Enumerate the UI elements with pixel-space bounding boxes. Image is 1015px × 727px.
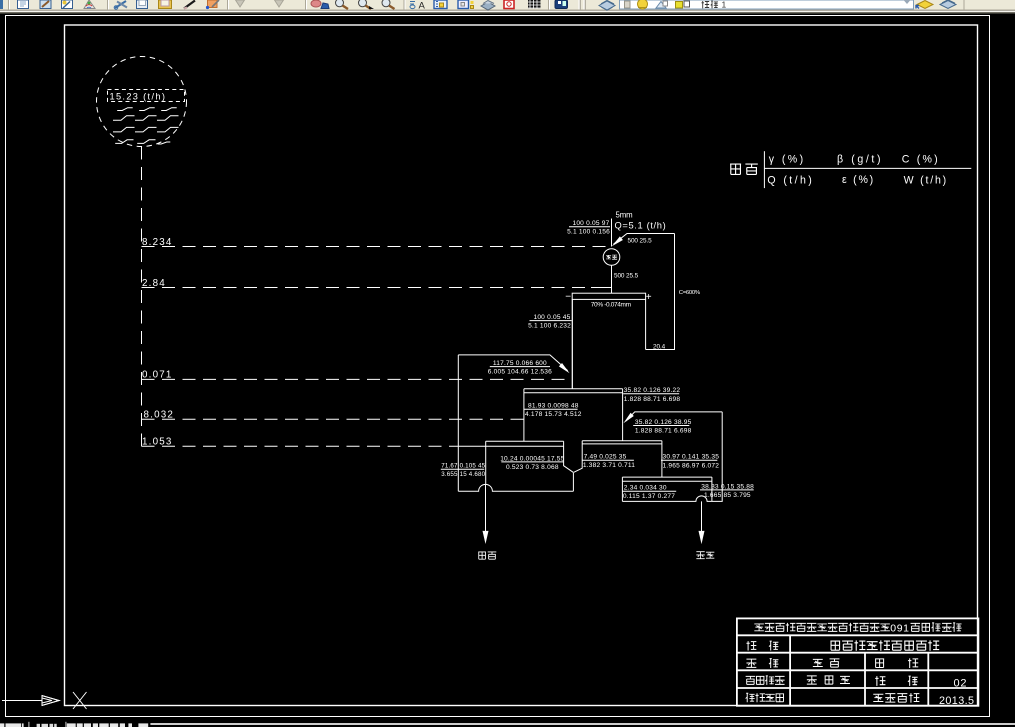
water line 0.071 (142, 378, 573, 380)
box B top (doubled) (458, 441, 563, 446)
svg-text:8.234: 8.234 (142, 237, 173, 248)
pump to classifier line (611, 265, 613, 293)
svg-text:1: 1 (722, 0, 727, 10)
svg-text:4.178 15.73 4.512: 4.178 15.73 4.512 (525, 411, 582, 418)
flotation box A top (524, 389, 623, 393)
svg-text:2.34 0.034 30: 2.34 0.034 30 (624, 485, 667, 492)
svg-text:2013.5: 2013.5 (939, 695, 974, 707)
box B left edge (485, 441, 487, 484)
title block row lines (737, 635, 979, 688)
box D bottom with tailings arc (622, 496, 712, 502)
fraction box C (582, 459, 634, 461)
svg-text:1.382 3.71 0.711: 1.382 3.71 0.711 (583, 462, 635, 469)
tailings arrow (701, 501, 703, 531)
svg-text:−: − (565, 292, 571, 303)
fraction tailings (700, 489, 754, 491)
water line 2.84 (142, 287, 592, 289)
bottom status fragments (0, 723, 4, 727)
title block outer (737, 618, 979, 705)
UCS X label (73, 692, 87, 709)
toolbar background (0, 0, 1015, 10)
title row3 (746, 659, 756, 667)
svg-text:30.97 0.141 35.35: 30.97 0.141 35.35 (663, 454, 720, 461)
svg-text:+: + (646, 292, 652, 303)
pump circle (603, 249, 620, 266)
legend fraction bar (764, 167, 971, 169)
svg-text:ε (%): ε (%) (842, 174, 875, 186)
svg-text:C=600%: C=600% (679, 290, 701, 296)
svg-text:02: 02 (954, 677, 968, 689)
svg-text:0.115 1.37 0.277: 0.115 1.37 0.277 (623, 493, 675, 500)
svg-text:15.23 (t/h): 15.23 (t/h) (110, 91, 167, 101)
svg-text:500 25.5: 500 25.5 (614, 272, 639, 279)
funnel riser (572, 472, 574, 491)
svg-text:2.84: 2.84 (142, 278, 166, 289)
water line 1.053 (142, 445, 459, 447)
svg-text:091: 091 (890, 622, 909, 634)
svg-text:1.965 86.97 6.072: 1.965 86.97 6.072 (663, 462, 720, 469)
svg-text:Q=5.1 (t/h): Q=5.1 (t/h) (615, 220, 667, 230)
ore feed circle (dashed) (97, 57, 187, 147)
fraction 71.67 left (441, 468, 485, 470)
box D top (doubled) (622, 477, 712, 481)
box C right edge (661, 441, 663, 477)
box A left edge (523, 389, 525, 441)
fraction box A (524, 408, 578, 410)
ore pile hatch marks (117, 108, 133, 111)
svg-text:10.24 0.00045 17.55: 10.24 0.00045 17.55 (500, 455, 564, 462)
svg-text:117.75 0.066 600: 117.75 0.066 600 (493, 360, 547, 367)
svg-text:A: A (419, 1, 426, 12)
box C top (doubled) (582, 441, 662, 444)
legend divider vertical (763, 151, 765, 188)
svg-text:Q (t/h): Q (t/h) (767, 174, 814, 186)
raw feed vertical line (611, 219, 613, 247)
title row2 (746, 641, 756, 650)
label wei-kuang (tailings) (696, 552, 704, 559)
left return column (457, 355, 459, 491)
svg-text:38.33 0.15 35.88: 38.33 0.15 35.88 (701, 483, 754, 490)
box A right edge (622, 389, 624, 441)
title row1 university text (754, 624, 764, 631)
svg-text:W (t/h): W (t/h) (904, 174, 948, 186)
svg-text:3.655 15 4.680: 3.655 15 4.680 (441, 471, 485, 478)
scavenger return loop (626, 412, 722, 421)
svg-text:6.005 104.66 12.536: 6.005 104.66 12.536 (488, 369, 552, 376)
box D right edge (711, 477, 713, 501)
fraction feed 100/5.1 (569, 226, 610, 228)
svg-text:C (%): C (%) (902, 154, 940, 166)
title row5 (746, 693, 755, 702)
svg-text:35.82 0.126 38.95: 35.82 0.126 38.95 (635, 419, 692, 426)
middlings return line (458, 355, 567, 371)
fraction box B (501, 461, 563, 463)
svg-text:70% -0.074mm: 70% -0.074mm (591, 302, 631, 309)
fraction scavenger return (633, 425, 689, 427)
svg-text:81.93 0.0098 48: 81.93 0.0098 48 (528, 403, 579, 410)
classifier bar (572, 293, 645, 299)
fraction box C right (661, 459, 717, 461)
svg-text:500 25.5: 500 25.5 (628, 237, 653, 244)
svg-text:5.1 100 6.232: 5.1 100 6.232 (528, 323, 571, 330)
water line 8.234 (142, 246, 612, 248)
fraction classifier overflow (530, 320, 572, 322)
box A feed vertical (571, 299, 573, 388)
concentrate arrow (485, 484, 487, 531)
mill box walls (572, 299, 645, 388)
svg-text:71.67 0.105 45: 71.67 0.105 45 (441, 463, 485, 470)
svg-text:100 0.05 97: 100 0.05 97 (572, 220, 609, 227)
svg-text:0.523 0.73 8.068: 0.523 0.73 8.068 (506, 464, 559, 471)
svg-text:7.49 0.025 35: 7.49 0.025 35 (584, 454, 627, 461)
title row4 (746, 676, 756, 684)
water line 8.032 (142, 418, 524, 420)
title block column lines (790, 635, 928, 706)
svg-text:1.665 85 3.795: 1.665 85 3.795 (704, 492, 751, 499)
svg-text:1.828 88.71 6.698: 1.828 88.71 6.698 (624, 396, 681, 403)
bottom trough with concentrate arc (458, 484, 573, 491)
svg-text:1.053: 1.053 (142, 436, 173, 447)
svg-text:100 0.05 45: 100 0.05 45 (533, 314, 570, 321)
svg-text:5.1 100 0.156: 5.1 100 0.156 (567, 229, 610, 236)
circulating load loop upper (614, 234, 675, 350)
main vertical dashed feed line (141, 147, 143, 447)
svg-text:8.032: 8.032 (144, 410, 175, 421)
label jing-kuang (concentrate) (478, 552, 486, 559)
svg-text:35.82 0.126 39.22: 35.82 0.126 39.22 (624, 387, 681, 394)
fraction 117.75 (490, 366, 550, 368)
svg-text:0.071: 0.071 (142, 370, 173, 381)
fraction stream to box C (623, 393, 679, 395)
svg-text:5mm: 5mm (616, 210, 633, 219)
svg-text:β (g/t): β (g/t) (837, 154, 883, 166)
svg-text:20.4: 20.4 (653, 344, 666, 351)
svg-text:γ (%): γ (%) (769, 154, 806, 166)
fraction box D (622, 490, 676, 492)
svg-text:1.828 88.71 6.698: 1.828 88.71 6.698 (635, 428, 692, 435)
bottom command-line top edge (150, 723, 1015, 725)
UCS icon X axis arrow (2, 700, 42, 702)
funnel V left (box B right edge) (564, 441, 574, 472)
legend title tu-li (730, 164, 741, 174)
box D left edge (621, 477, 623, 501)
funnel V right (box C left edge) (574, 441, 582, 473)
feed label frame (dashed) (108, 90, 185, 102)
